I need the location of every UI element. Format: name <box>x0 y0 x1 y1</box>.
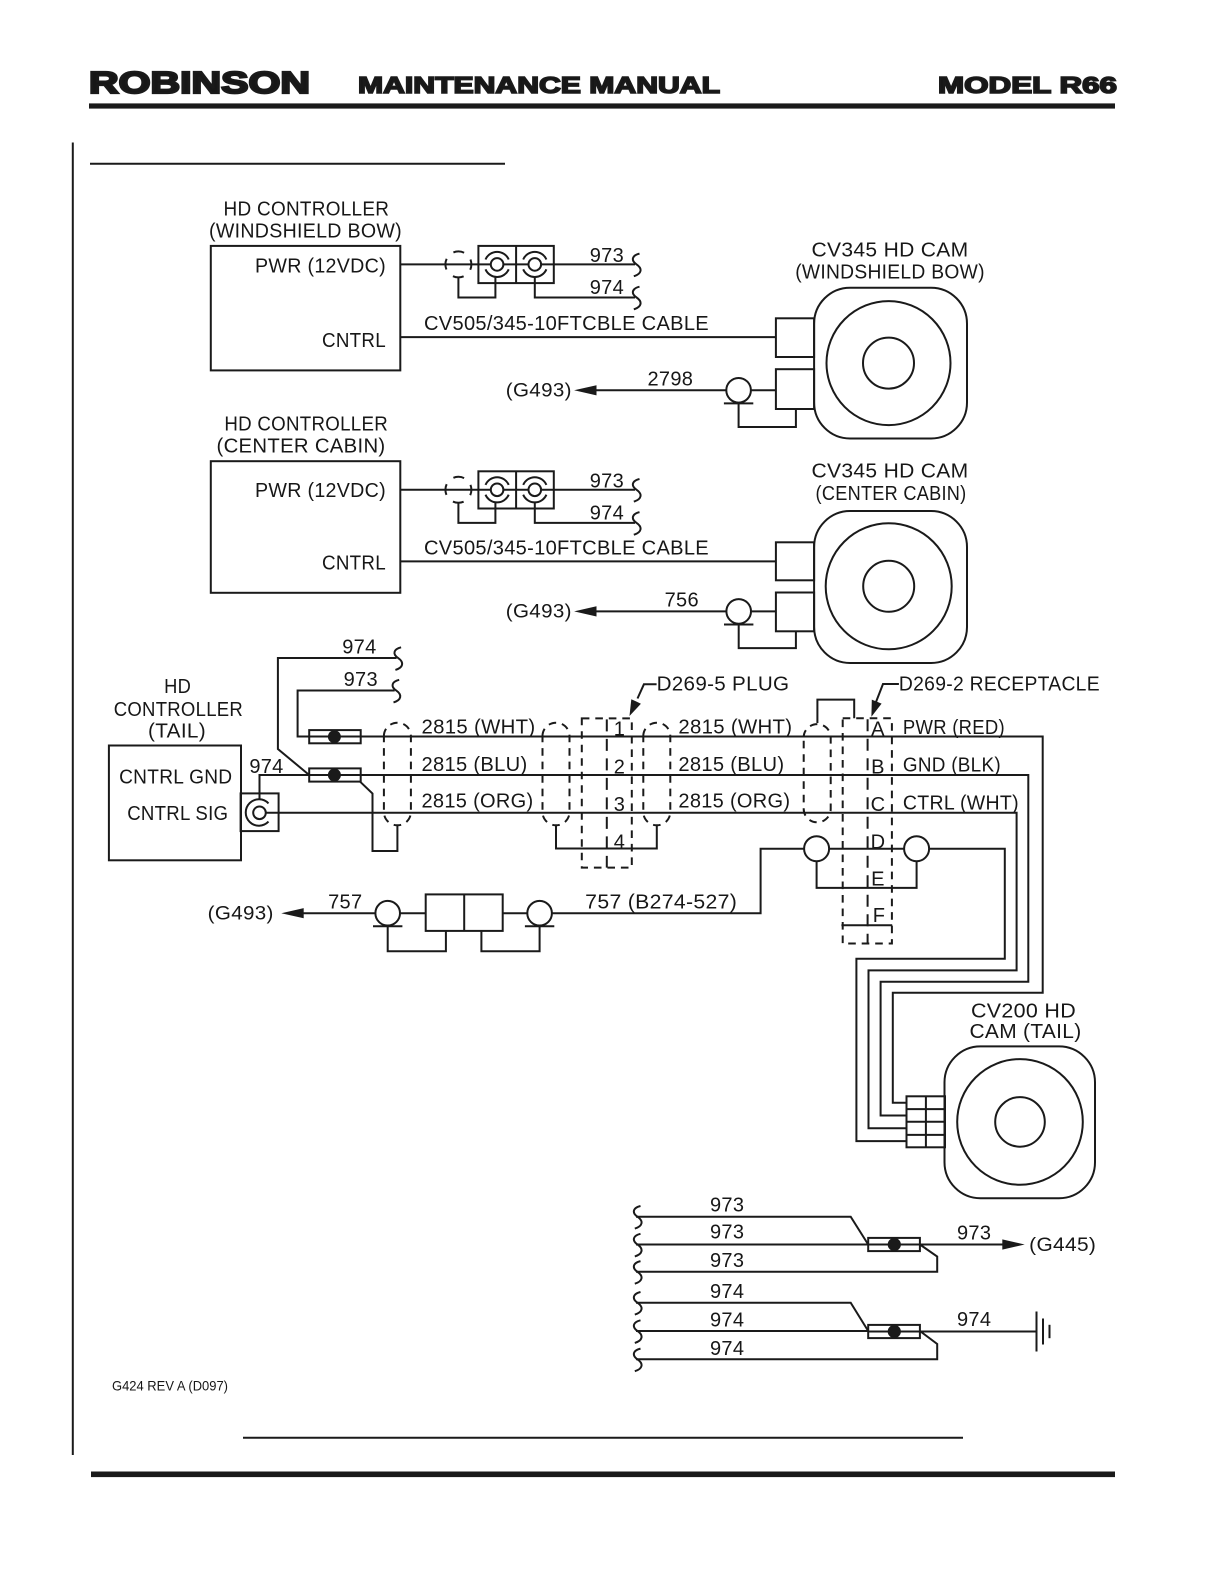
wire 973 from break down to splice SP1 <box>298 691 395 737</box>
camera U3 body CV200 (tail) <box>945 1046 1096 1198</box>
shield stadium 1 <box>384 723 411 826</box>
label D269-5 PLUG with leader <box>630 674 790 716</box>
label CV200 HD CAM (TAIL) <box>970 1000 1082 1043</box>
pin F shell bar <box>841 924 892 926</box>
label D269-2 RECEPTACLE with leader <box>871 674 1100 717</box>
svg-text:757: 757 <box>328 891 362 913</box>
shield drain jumper to cam tab <box>739 403 796 427</box>
wire 2815 BLU run <box>309 775 1028 1116</box>
svg-text:974: 974 <box>590 502 624 524</box>
splice SP2 <box>309 768 361 781</box>
svg-text:C: C <box>871 794 886 816</box>
svg-text:CNTRL: CNTRL <box>322 552 386 574</box>
HD controller box (center cabin) <box>211 461 400 593</box>
svg-text:D269-5 PLUG: D269-5 PLUG <box>657 674 790 696</box>
svg-text:CTRL (WHT): CTRL (WHT) <box>903 792 1019 814</box>
label HD CONTROLLER (TAIL) <box>114 676 243 742</box>
splice circle 757 left <box>375 901 400 926</box>
svg-text:974: 974 <box>342 636 376 658</box>
camera U1 body CV345 (windshield bow) <box>814 288 967 439</box>
svg-text:B: B <box>871 756 885 778</box>
wire 757 shield run through receptacle D <box>594 849 1005 1141</box>
wire 974 c <box>636 1331 937 1359</box>
shield stadium 4 <box>804 724 831 822</box>
left margin vertical line <box>72 143 74 1456</box>
HD controller box (windshield bow) <box>211 246 400 371</box>
svg-text:973: 973 <box>590 245 624 267</box>
svg-text:973: 973 <box>710 1195 744 1217</box>
wire CNTRL to camera <box>400 336 776 338</box>
wire PWR to terminal block and 973 <box>400 489 635 491</box>
svg-text:2815 (WHT): 2815 (WHT) <box>422 717 536 739</box>
svg-text:2815 (BLU): 2815 (BLU) <box>422 754 528 776</box>
label CV345 HD CAM (WINDSHIELD BOW) <box>795 239 985 283</box>
svg-text:CONTROLLER: CONTROLLER <box>114 699 243 721</box>
splice tick left <box>373 925 402 927</box>
squiggle 973 a <box>634 1206 642 1229</box>
wire 756 to ground G493 <box>594 610 776 612</box>
wire break squiggle 973 <box>633 479 641 502</box>
shield drain jumper to cam tab <box>739 625 796 649</box>
terminal contact 1 <box>486 252 509 277</box>
svg-text:3: 3 <box>614 794 625 816</box>
svg-text:973: 973 <box>344 669 378 691</box>
connector P1 D269-5 plug outline <box>582 718 632 867</box>
terminal block TB1 <box>478 246 553 283</box>
svg-text:2815 (ORG): 2815 (ORG) <box>678 790 790 812</box>
wire 974 from break down to splice SP2 <box>278 658 397 775</box>
splice circle on 2798 <box>726 378 751 403</box>
svg-text:973: 973 <box>957 1222 991 1244</box>
svg-text:974: 974 <box>710 1310 744 1332</box>
svg-text:HD CONTROLLER: HD CONTROLLER <box>224 413 388 435</box>
wire 973 a <box>636 1217 868 1245</box>
arrow to (G493) <box>574 385 596 395</box>
terminal contact 1 <box>486 477 509 502</box>
svg-text:2815 (ORG): 2815 (ORG) <box>422 790 534 812</box>
splice circle D-row left <box>804 836 829 861</box>
svg-text:GND (BLK): GND (BLK) <box>903 754 1001 776</box>
svg-text:(G445): (G445) <box>1029 1235 1096 1256</box>
svg-text:CV200 HD: CV200 HD <box>971 1000 1076 1022</box>
svg-text:MAINTENANCE MANUAL: MAINTENANCE MANUAL <box>358 72 720 98</box>
shield stadium 2 <box>543 723 570 826</box>
svg-text:CV505/345-10FTCBLE CABLE: CV505/345-10FTCBLE CABLE <box>424 537 709 559</box>
wire 2815 WHT run <box>309 737 1042 1103</box>
arrow to (G445) <box>1002 1239 1024 1249</box>
wire break squiggle 974 <box>633 287 641 310</box>
svg-text:MODEL R66: MODEL R66 <box>938 72 1117 98</box>
camera U1 connector tab top <box>776 318 814 357</box>
svg-text:2: 2 <box>614 756 625 778</box>
svg-text:1: 1 <box>614 719 625 741</box>
squiggle 974 b <box>634 1320 642 1343</box>
svg-text:974: 974 <box>957 1309 991 1331</box>
splice dashed circle <box>445 477 471 503</box>
connector J2 D269-2 receptacle outline <box>843 718 892 943</box>
splice tick <box>724 402 753 404</box>
svg-text:973: 973 <box>710 1250 744 1272</box>
wire break squiggle 974 <box>633 512 641 535</box>
splice dashed circle <box>445 251 471 277</box>
svg-text:(CENTER CABIN): (CENTER CABIN) <box>816 483 967 505</box>
splice SP3 <box>868 1238 920 1251</box>
connector block 757 <box>426 894 503 931</box>
svg-text:CV345 HD CAM: CV345 HD CAM <box>812 461 969 483</box>
arrow to (G493) <box>281 908 303 918</box>
svg-text:974: 974 <box>710 1281 744 1303</box>
wire 973 out to G445 <box>868 1244 1004 1246</box>
camera U3 connector grid <box>907 1096 946 1147</box>
svg-text:2815 (BLU): 2815 (BLU) <box>678 754 784 776</box>
svg-text:PWR (12VDC): PWR (12VDC) <box>255 480 386 502</box>
wire CNTRL to camera <box>400 560 776 562</box>
wire jumper dashed-circle to terminal 1 <box>458 502 495 523</box>
wire break squiggle 974 top <box>394 647 402 670</box>
top underline <box>90 163 505 165</box>
svg-text:(WINDSHIELD BOW): (WINDSHIELD BOW) <box>209 221 402 243</box>
wire PWR to terminal block and 973 <box>400 263 635 265</box>
svg-text:973: 973 <box>710 1222 744 1244</box>
arrow to (G493) <box>574 606 596 616</box>
svg-text:D269-2 RECEPTACLE: D269-2 RECEPTACLE <box>899 674 1100 696</box>
wire CNTRL GND tap from coax shell to splice SP2 <box>260 775 310 800</box>
drain right circle to block <box>481 926 539 951</box>
wire 973 c <box>636 1245 937 1272</box>
svg-text:2815 (WHT): 2815 (WHT) <box>678 717 792 739</box>
svg-text:CV345 HD CAM: CV345 HD CAM <box>812 239 969 261</box>
camera U2 connector tab bottom <box>776 593 814 632</box>
wire 974 from terminal 2 <box>535 277 635 298</box>
svg-text:CAM (TAIL): CAM (TAIL) <box>970 1021 1082 1043</box>
shield bracket to receptacle shell <box>817 700 854 723</box>
svg-text:CNTRL GND: CNTRL GND <box>119 767 232 789</box>
shield stadium 3 <box>643 723 670 826</box>
squiggle 973 c <box>634 1261 642 1284</box>
svg-text:CNTRL: CNTRL <box>322 330 386 352</box>
splice circle on 756 <box>726 599 751 624</box>
footer rule <box>91 1472 1115 1478</box>
wire 974 a <box>636 1303 868 1331</box>
splice circle 757 right <box>527 901 552 926</box>
shield jumper pin4 U between stadium 2 and 3 <box>556 825 657 848</box>
svg-text:F: F <box>873 905 886 927</box>
wire 974 b <box>636 1330 868 1332</box>
wire 2815 ORG run <box>266 813 1017 1129</box>
squiggle 973 b <box>634 1234 642 1257</box>
svg-text:G424 REV A (D097): G424 REV A (D097) <box>112 1378 228 1394</box>
svg-text:974: 974 <box>710 1338 744 1360</box>
svg-text:(CENTER CABIN): (CENTER CABIN) <box>217 435 386 457</box>
drain left circle to block <box>388 926 446 951</box>
wire 974 out to ground <box>868 1331 1036 1333</box>
camera U2 body CV345 (center cabin) <box>814 511 967 663</box>
wire 974 from terminal 2 <box>535 502 635 523</box>
splice SP4 <box>868 1325 920 1338</box>
terminal contact 2 <box>523 252 546 277</box>
svg-text:2798: 2798 <box>647 368 693 390</box>
svg-text:(TAIL): (TAIL) <box>148 721 206 743</box>
svg-text:(WINDSHIELD BOW): (WINDSHIELD BOW) <box>795 262 985 284</box>
svg-text:A: A <box>871 719 885 741</box>
splice tick <box>724 624 753 626</box>
label HD CONTROLLER (WINDSHIELD BOW) <box>209 199 402 243</box>
svg-text:(G493): (G493) <box>506 381 572 402</box>
header rule <box>89 103 1115 108</box>
splice circle D-row right <box>904 836 929 861</box>
squiggle 974 a <box>634 1292 642 1315</box>
svg-text:757 (B274-527): 757 (B274-527) <box>585 891 737 913</box>
squiggle 974 c <box>634 1349 642 1372</box>
wire 2798 to ground G493 <box>594 389 776 391</box>
terminal block TB2 <box>478 471 553 508</box>
terminal contact 2 <box>523 477 546 502</box>
label CV345 HD CAM (CENTER CABIN) <box>812 461 969 506</box>
coax connector J1 <box>241 793 279 831</box>
wire 973 b <box>636 1244 868 1246</box>
camera U1 connector tab bottom <box>776 369 814 409</box>
svg-text:ROBINSON: ROBINSON <box>89 65 310 100</box>
ground symbol <box>1037 1312 1050 1352</box>
camera U2 connector tab top <box>776 542 814 580</box>
svg-text:CV505/345-10FTCBLE CABLE: CV505/345-10FTCBLE CABLE <box>424 313 709 335</box>
splice tick right <box>525 925 554 927</box>
wire segment to arrow <box>301 912 594 914</box>
label HD CONTROLLER (CENTER CABIN) <box>217 413 389 457</box>
wire break squiggle 973 <box>633 254 641 277</box>
svg-text:(G493): (G493) <box>208 904 274 925</box>
svg-text:HD CONTROLLER: HD CONTROLLER <box>224 199 390 221</box>
shield jumper E row U <box>817 861 917 888</box>
wire jumper dashed-circle to terminal 1 <box>458 277 495 298</box>
svg-text:4: 4 <box>614 831 625 853</box>
splice SP1 <box>309 730 361 743</box>
svg-text:PWR (12VDC): PWR (12VDC) <box>255 255 386 277</box>
svg-text:PWR (RED): PWR (RED) <box>903 717 1005 739</box>
svg-text:974: 974 <box>590 277 624 299</box>
svg-text:973: 973 <box>590 470 624 492</box>
wire break squiggle 973 top <box>393 680 401 703</box>
shield drain from SP2 to shield 1 <box>360 781 398 851</box>
svg-text:756: 756 <box>665 590 699 612</box>
svg-text:D: D <box>871 831 886 853</box>
svg-text:CNTRL SIG: CNTRL SIG <box>127 803 228 825</box>
footer underline <box>243 1437 963 1439</box>
HD controller box (tail) <box>109 746 241 861</box>
svg-text:HD: HD <box>164 676 191 698</box>
svg-text:(G493): (G493) <box>506 602 572 623</box>
